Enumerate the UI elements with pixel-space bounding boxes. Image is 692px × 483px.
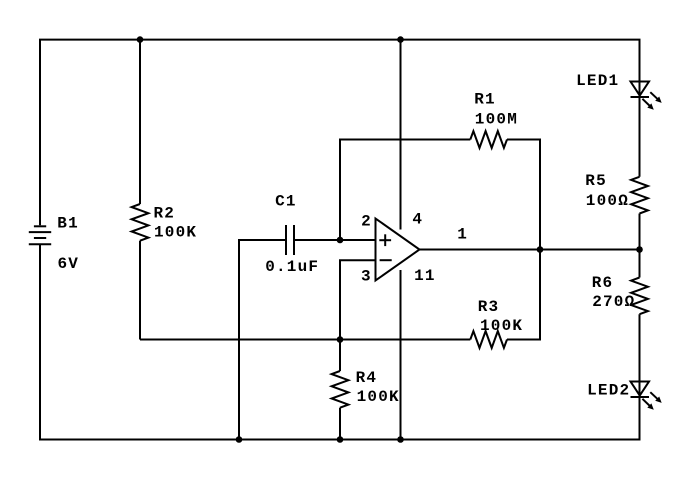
- svg-text:R6: R6: [592, 274, 614, 292]
- svg-text:100Ω: 100Ω: [586, 192, 629, 210]
- svg-text:4: 4: [412, 210, 423, 228]
- svg-text:6V: 6V: [58, 255, 80, 273]
- svg-text:11: 11: [414, 267, 436, 285]
- svg-text:0.1uF: 0.1uF: [265, 258, 319, 276]
- svg-text:R3: R3: [478, 298, 500, 316]
- svg-text:LED1: LED1: [576, 72, 619, 90]
- svg-text:270Ω: 270Ω: [592, 293, 635, 311]
- svg-text:B1: B1: [57, 215, 79, 233]
- svg-text:C1: C1: [275, 192, 297, 210]
- svg-text:R2: R2: [154, 204, 176, 222]
- svg-text:100K: 100K: [357, 388, 400, 406]
- svg-text:R4: R4: [356, 369, 378, 387]
- svg-text:100M: 100M: [475, 110, 518, 128]
- svg-text:100K: 100K: [480, 317, 523, 335]
- svg-text:1: 1: [457, 226, 468, 244]
- svg-text:100K: 100K: [154, 224, 197, 242]
- svg-text:LED2: LED2: [587, 381, 630, 399]
- svg-text:3: 3: [361, 267, 372, 285]
- svg-text:2: 2: [361, 212, 372, 230]
- svg-text:R1: R1: [474, 91, 496, 109]
- svg-text:R5: R5: [585, 172, 607, 190]
